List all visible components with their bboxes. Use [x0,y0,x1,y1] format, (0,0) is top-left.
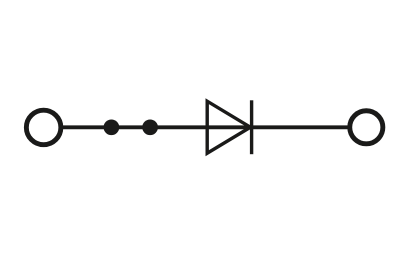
terminal circle right [350,111,383,144]
junction dot 1 [104,119,120,135]
diode D1 triangle (anode) [207,101,250,153]
terminal circle left [26,110,61,145]
diode D1 cathode bar [250,100,253,154]
junction dot 2 [142,119,158,135]
wire [43,125,366,129]
